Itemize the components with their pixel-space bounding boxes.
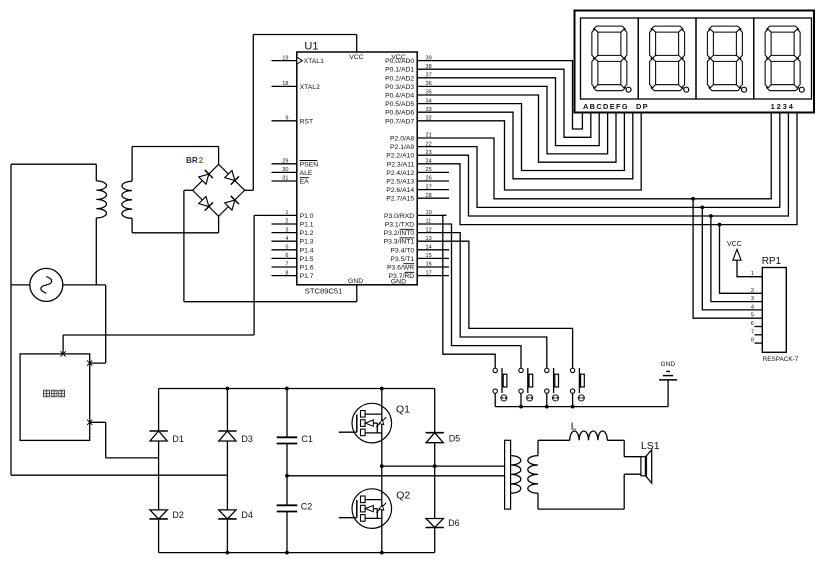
svg-text:1234: 1234 bbox=[771, 102, 795, 111]
svg-text:P0.5/AD5: P0.5/AD5 bbox=[385, 101, 414, 108]
svg-text:D4: D4 bbox=[241, 510, 253, 520]
svg-text:P1.7: P1.7 bbox=[300, 273, 314, 280]
svg-text:DP: DP bbox=[636, 102, 649, 111]
svg-text:33: 33 bbox=[426, 107, 432, 113]
svg-text:32: 32 bbox=[426, 116, 432, 122]
svg-text:P1.3: P1.3 bbox=[300, 239, 314, 246]
svg-text:P1.4: P1.4 bbox=[300, 247, 314, 254]
svg-text:17: 17 bbox=[426, 270, 432, 276]
svg-text:P1.6: P1.6 bbox=[300, 265, 314, 272]
svg-text:P0.4/AD4: P0.4/AD4 bbox=[385, 93, 414, 100]
svg-text:5: 5 bbox=[751, 313, 754, 319]
svg-text:15: 15 bbox=[426, 253, 432, 259]
svg-text:P3.5/T1: P3.5/T1 bbox=[390, 256, 414, 263]
svg-text:2: 2 bbox=[285, 219, 288, 225]
svg-text:P0.3/AD3: P0.3/AD3 bbox=[385, 84, 414, 91]
svg-text:24: 24 bbox=[426, 159, 432, 165]
svg-text:U1: U1 bbox=[304, 41, 318, 53]
svg-text:RP1: RP1 bbox=[762, 256, 782, 267]
svg-text:P0.1/AD1: P0.1/AD1 bbox=[385, 67, 414, 74]
svg-text:P2.3/A11: P2.3/A11 bbox=[387, 161, 415, 168]
svg-text:12: 12 bbox=[426, 227, 432, 233]
svg-text:2: 2 bbox=[751, 288, 754, 294]
svg-text:23: 23 bbox=[426, 150, 432, 156]
svg-text:D5: D5 bbox=[449, 433, 461, 443]
svg-text:P2.1/A9: P2.1/A9 bbox=[390, 144, 414, 151]
svg-text:27: 27 bbox=[426, 184, 432, 190]
svg-text:ALE: ALE bbox=[300, 170, 313, 177]
svg-text:P3.2/INT0: P3.2/INT0 bbox=[384, 230, 415, 237]
svg-text:P3.0/RXD: P3.0/RXD bbox=[384, 213, 414, 220]
svg-text:34: 34 bbox=[426, 98, 432, 104]
svg-text:9: 9 bbox=[285, 116, 288, 122]
svg-text:P1.5: P1.5 bbox=[300, 256, 314, 263]
svg-text:L: L bbox=[571, 421, 577, 433]
svg-text:11: 11 bbox=[426, 219, 432, 225]
svg-text:C2: C2 bbox=[301, 502, 313, 512]
svg-text:P0.6/AD6: P0.6/AD6 bbox=[385, 110, 414, 117]
svg-text:P2.7/A15: P2.7/A15 bbox=[386, 196, 414, 203]
svg-text:Q2: Q2 bbox=[396, 489, 410, 501]
svg-text:2: 2 bbox=[199, 156, 204, 165]
svg-text:30: 30 bbox=[282, 167, 288, 173]
svg-text:8: 8 bbox=[285, 270, 288, 276]
svg-text:25: 25 bbox=[426, 167, 432, 173]
svg-text:31: 31 bbox=[282, 176, 288, 182]
svg-text:36: 36 bbox=[426, 81, 432, 87]
svg-text:P2.5/A13: P2.5/A13 bbox=[386, 179, 414, 186]
svg-text:D3: D3 bbox=[241, 434, 253, 444]
svg-text:C1: C1 bbox=[301, 434, 313, 444]
svg-text:3: 3 bbox=[285, 227, 288, 233]
svg-text:D2: D2 bbox=[172, 510, 184, 520]
svg-text:GND: GND bbox=[661, 361, 676, 368]
svg-text:P2.0/A8: P2.0/A8 bbox=[390, 136, 414, 143]
svg-text:6: 6 bbox=[751, 321, 754, 327]
svg-text:6: 6 bbox=[285, 253, 288, 259]
svg-text:14: 14 bbox=[426, 245, 432, 251]
svg-text:BR: BR bbox=[186, 156, 198, 165]
svg-text:VCC: VCC bbox=[391, 54, 405, 61]
svg-text:28: 28 bbox=[426, 193, 432, 199]
svg-text:P2.4/A12: P2.4/A12 bbox=[386, 170, 414, 177]
svg-text:GND: GND bbox=[348, 278, 363, 285]
svg-text:18: 18 bbox=[282, 81, 288, 87]
svg-text:26: 26 bbox=[426, 176, 432, 182]
svg-text:37: 37 bbox=[426, 73, 432, 79]
svg-text:3: 3 bbox=[751, 296, 754, 302]
svg-text:Q1: Q1 bbox=[396, 403, 410, 415]
svg-text:GND: GND bbox=[391, 279, 406, 286]
svg-text:16: 16 bbox=[426, 262, 432, 268]
svg-text:D1: D1 bbox=[172, 434, 184, 444]
svg-text:5: 5 bbox=[285, 245, 288, 251]
svg-text:38: 38 bbox=[426, 64, 432, 70]
svg-text:VCC: VCC bbox=[727, 241, 742, 248]
svg-text:P3.4/T0: P3.4/T0 bbox=[390, 247, 414, 254]
svg-text:21: 21 bbox=[426, 133, 432, 139]
svg-text:4: 4 bbox=[751, 304, 754, 310]
svg-text:XTAL2: XTAL2 bbox=[300, 84, 320, 91]
svg-text:1: 1 bbox=[285, 210, 288, 216]
svg-text:P3.6/WR: P3.6/WR bbox=[387, 265, 414, 272]
svg-text:RST: RST bbox=[300, 118, 314, 125]
svg-text:7: 7 bbox=[751, 329, 754, 335]
svg-text:19: 19 bbox=[282, 55, 288, 61]
svg-text:D6: D6 bbox=[448, 518, 460, 528]
svg-text:P0.2/AD2: P0.2/AD2 bbox=[385, 75, 414, 82]
svg-text:PSEN: PSEN bbox=[300, 161, 319, 168]
svg-text:39: 39 bbox=[426, 55, 432, 61]
svg-text:RESPACK-7: RESPACK-7 bbox=[763, 356, 799, 363]
svg-text:10: 10 bbox=[426, 210, 432, 216]
svg-text:VCC: VCC bbox=[349, 54, 363, 61]
svg-text:P0.7/AD7: P0.7/AD7 bbox=[385, 118, 414, 125]
svg-text:P3.1/TXD: P3.1/TXD bbox=[385, 222, 415, 229]
svg-text:EA: EA bbox=[300, 179, 310, 186]
svg-text:ABCDEFG: ABCDEFG bbox=[583, 102, 629, 111]
svg-text:13: 13 bbox=[426, 236, 432, 242]
svg-text:7: 7 bbox=[285, 262, 288, 268]
svg-text:22: 22 bbox=[426, 141, 432, 147]
svg-text:P2.6/A14: P2.6/A14 bbox=[386, 187, 414, 194]
svg-text:XTAL1: XTAL1 bbox=[304, 58, 324, 65]
svg-text:LS1: LS1 bbox=[641, 440, 660, 452]
svg-text:29: 29 bbox=[282, 159, 288, 165]
svg-text:P3.3/INT1: P3.3/INT1 bbox=[384, 239, 415, 246]
svg-text:35: 35 bbox=[426, 90, 432, 96]
svg-text:P1.1: P1.1 bbox=[300, 222, 314, 229]
svg-text:4: 4 bbox=[285, 236, 288, 242]
svg-text:P1.0: P1.0 bbox=[300, 213, 314, 220]
svg-text:P2.2/A10: P2.2/A10 bbox=[386, 153, 414, 160]
svg-text:P1.2: P1.2 bbox=[300, 230, 314, 237]
svg-text:STC89C51: STC89C51 bbox=[305, 287, 343, 296]
svg-text:8: 8 bbox=[751, 338, 754, 344]
